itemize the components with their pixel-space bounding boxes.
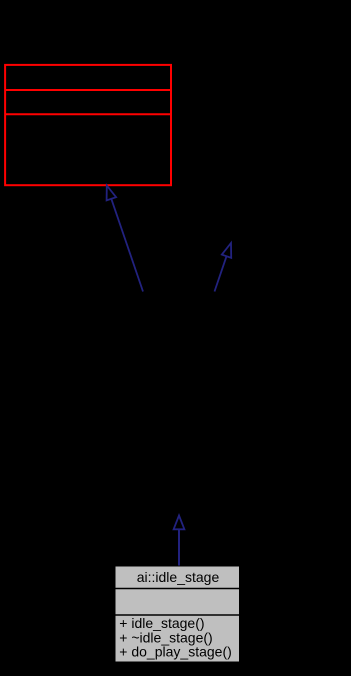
svg-text:ai::idle_stage: ai::idle_stage [137, 569, 220, 585]
svg-text:+ do_play_stage(): + do_play_stage() [119, 644, 231, 660]
